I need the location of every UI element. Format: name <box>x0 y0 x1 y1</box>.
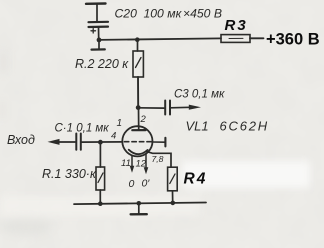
anode plate bar <box>132 129 145 131</box>
wire: R1 bottom lead <box>99 190 101 204</box>
wire: R1 top lead <box>99 142 101 167</box>
capacitor C3 <box>165 101 170 115</box>
ground (bottom chassis) <box>131 203 147 214</box>
node B (R2 tap on bus) <box>135 37 140 42</box>
resistor R4 <box>168 167 178 191</box>
svg-text:11: 11 <box>121 158 131 169</box>
svg-text:7,8: 7,8 <box>152 154 164 164</box>
node F (ground stub/rail) <box>137 201 142 206</box>
wire: C1 to grid <box>81 141 122 143</box>
svg-text:+360 В: +360 В <box>266 31 320 49</box>
capacitor C1 <box>76 134 81 150</box>
node D (grid / R1 tap) <box>98 140 103 145</box>
svg-text:C·1 0,1 мк: C·1 0,1 мк <box>55 123 110 135</box>
heater lead 12 (arrow down) <box>144 154 149 174</box>
resistor R1 <box>96 167 105 190</box>
svg-text:R4: R4 <box>184 171 208 188</box>
svg-text:1: 1 <box>117 118 123 129</box>
svg-text:0: 0 <box>129 178 135 190</box>
wire: output with arrow <box>171 105 202 110</box>
grid (dashed) <box>124 141 151 143</box>
wire: anode lead down into tube <box>138 108 140 130</box>
wire: R4 bottom lead <box>172 191 174 203</box>
wire: R2 bottom lead to anode node <box>137 77 139 108</box>
capacitor C20 (electrolytic) <box>89 22 109 40</box>
wire: R3 right lead <box>250 37 264 39</box>
chassis stub below node A <box>92 40 105 50</box>
wire: bus from node A to R3 <box>99 38 221 40</box>
node G (R4/rail) <box>171 201 176 206</box>
cathode <box>129 150 148 155</box>
svg-text:12: 12 <box>136 159 147 170</box>
wire: ground rail <box>74 203 206 205</box>
svg-text:C20100 мк×450 В: C20100 мк×450 В <box>115 7 222 21</box>
node A (C20 / bus junction) <box>97 38 102 43</box>
node E (R1/rail) <box>98 201 103 206</box>
resistor R3 <box>221 35 250 43</box>
resistor R2 <box>133 51 143 77</box>
svg-text:C3 0,1 мк: C3 0,1 мк <box>174 89 225 101</box>
heater lead 11 (arrow down) <box>130 156 135 173</box>
wire: anode node to C3 <box>138 107 164 109</box>
unused electrode bar (right, pins 7,8) <box>153 138 166 147</box>
input arrow <box>48 139 76 145</box>
svg-text:Вход: Вход <box>7 133 35 147</box>
svg-text:R.2 220 к: R.2 220 к <box>75 57 129 71</box>
wire: cathode lead to R4 <box>147 152 171 168</box>
tube VL1 envelope <box>122 126 152 156</box>
svg-text:4: 4 <box>111 131 116 142</box>
svg-text:R.1 330·к: R.1 330·к <box>42 167 97 181</box>
svg-text:2: 2 <box>140 114 147 125</box>
wire: R2 top lead <box>137 40 139 51</box>
chassis (top) <box>86 4 106 22</box>
svg-text:0′: 0′ <box>142 178 151 190</box>
node C (anode node) <box>136 105 141 110</box>
svg-text:VL16С62Н: VL16С62Н <box>186 119 269 134</box>
svg-text:R3: R3 <box>225 17 248 34</box>
